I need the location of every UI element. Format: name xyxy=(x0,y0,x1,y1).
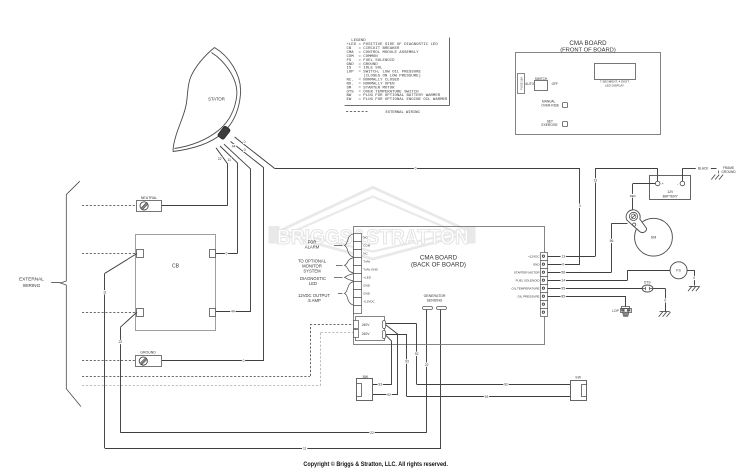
svg-text:92: 92 xyxy=(504,382,508,386)
svg-text:OIL PRESSURE: OIL PRESSURE xyxy=(517,294,539,298)
svg-text:GROUND: GROUND xyxy=(721,170,736,174)
svg-text:(BACK OF BOARD): (BACK OF BOARD) xyxy=(411,262,466,269)
svg-text:SM: SM xyxy=(651,236,656,240)
svg-text:TxRx: TxRx xyxy=(363,259,370,263)
svg-text:+LED: +LED xyxy=(363,275,371,279)
svg-text:CB: CB xyxy=(172,264,180,270)
svg-text:CMA BOARD: CMA BOARD xyxy=(569,40,607,47)
svg-text:240V: 240V xyxy=(362,332,371,336)
svg-text:+12VDC: +12VDC xyxy=(528,254,540,258)
svg-text:92: 92 xyxy=(415,352,419,356)
svg-text:.5 AMP: .5 AMP xyxy=(307,298,321,303)
svg-text:22: 22 xyxy=(218,157,222,161)
svg-text:11: 11 xyxy=(103,290,107,294)
svg-text:44: 44 xyxy=(231,309,235,313)
svg-text:RED: RED xyxy=(630,194,636,198)
svg-text:93: 93 xyxy=(485,395,489,399)
svg-text:92: 92 xyxy=(387,393,391,397)
svg-text:11: 11 xyxy=(303,446,307,450)
svg-text:BW: BW xyxy=(363,375,369,379)
svg-text:FUEL SOLENOID: FUEL SOLENOID xyxy=(516,278,541,282)
svg-text:STATOR: STATOR xyxy=(208,97,225,102)
svg-text:BATTERY: BATTERY xyxy=(663,194,679,198)
svg-text:LED: LED xyxy=(309,281,317,286)
svg-text:0: 0 xyxy=(415,166,417,170)
svg-text:+12VDC: +12VDC xyxy=(363,299,375,303)
svg-text:11: 11 xyxy=(228,158,232,162)
svg-text:0: 0 xyxy=(244,140,246,144)
svg-text:Copyright © Briggs & Stratton,: Copyright © Briggs & Stratton, LLC. All … xyxy=(303,460,448,468)
svg-text:0: 0 xyxy=(562,262,564,266)
svg-text:STARTER MOTOR: STARTER MOTOR xyxy=(514,270,541,274)
svg-text:EW = PLUG FOR OPTIONAL ENGIN: EW = PLUG FOR OPTIONAL ENGINE OIL WARMER xyxy=(347,98,448,102)
svg-text:GND: GND xyxy=(363,283,371,287)
svg-text:13: 13 xyxy=(561,254,565,258)
svg-text:0: 0 xyxy=(244,148,246,152)
svg-text:0: 0 xyxy=(226,252,228,256)
svg-text:56: 56 xyxy=(610,239,614,243)
svg-text:COM: COM xyxy=(363,243,371,247)
svg-text:WIRING: WIRING xyxy=(23,283,41,288)
svg-text:FS: FS xyxy=(676,269,681,273)
svg-text:240V: 240V xyxy=(362,323,371,327)
svg-text:13: 13 xyxy=(593,179,597,183)
svg-text:95: 95 xyxy=(561,287,565,291)
svg-text:FUSE 15A: FUSE 15A xyxy=(519,77,523,90)
svg-text:EXTERNAL: EXTERNAL xyxy=(19,277,44,282)
svg-text:OFF: OFF xyxy=(552,82,558,86)
svg-text:0: 0 xyxy=(579,204,581,208)
svg-text:+: + xyxy=(662,182,664,186)
svg-text:CMA BOARD: CMA BOARD xyxy=(420,254,458,261)
svg-text:22: 22 xyxy=(370,431,374,435)
svg-text:BLACK: BLACK xyxy=(698,167,709,171)
svg-text:85: 85 xyxy=(561,294,565,298)
svg-text:EW: EW xyxy=(576,375,582,379)
svg-text:GND: GND xyxy=(363,291,371,295)
svg-text:GND: GND xyxy=(533,262,541,266)
svg-text:NEUTRAL: NEUTRAL xyxy=(141,196,157,200)
svg-text:(FRONT OF BOARD): (FRONT OF BOARD) xyxy=(560,47,616,53)
svg-text:OIL TEMPERATURE: OIL TEMPERATURE xyxy=(512,286,540,290)
svg-text:SENSING: SENSING xyxy=(427,299,443,303)
svg-text:NO: NO xyxy=(363,235,368,239)
svg-text:44: 44 xyxy=(232,144,236,148)
svg-text:56: 56 xyxy=(561,270,565,274)
svg-text:SYSTEM: SYSTEM xyxy=(303,269,321,274)
svg-text:22: 22 xyxy=(119,340,123,344)
svg-text:OVER-RIDE: OVER-RIDE xyxy=(541,103,559,107)
svg-text:OTS: OTS xyxy=(644,280,652,284)
svg-text:TxRx GND: TxRx GND xyxy=(363,267,378,271)
svg-text:ALARM: ALARM xyxy=(305,245,320,250)
svg-text:0: 0 xyxy=(693,276,695,280)
svg-text:AUTO: AUTO xyxy=(525,82,534,86)
svg-text:EXERCISE: EXERCISE xyxy=(542,123,558,127)
svg-text:14: 14 xyxy=(561,278,565,282)
svg-text:LOP: LOP xyxy=(612,309,619,313)
svg-text:0: 0 xyxy=(664,299,666,303)
svg-text:93: 93 xyxy=(378,383,382,387)
svg-text:22: 22 xyxy=(425,363,429,367)
svg-text:GENERATOR: GENERATOR xyxy=(424,294,446,298)
svg-text:0: 0 xyxy=(243,359,245,363)
svg-text:LED DISPLAY: LED DISPLAY xyxy=(605,83,624,87)
svg-text:93: 93 xyxy=(405,360,409,364)
svg-text:GROUND: GROUND xyxy=(140,351,156,355)
svg-text:EXTERNAL WIRING: EXTERNAL WIRING xyxy=(386,111,421,115)
